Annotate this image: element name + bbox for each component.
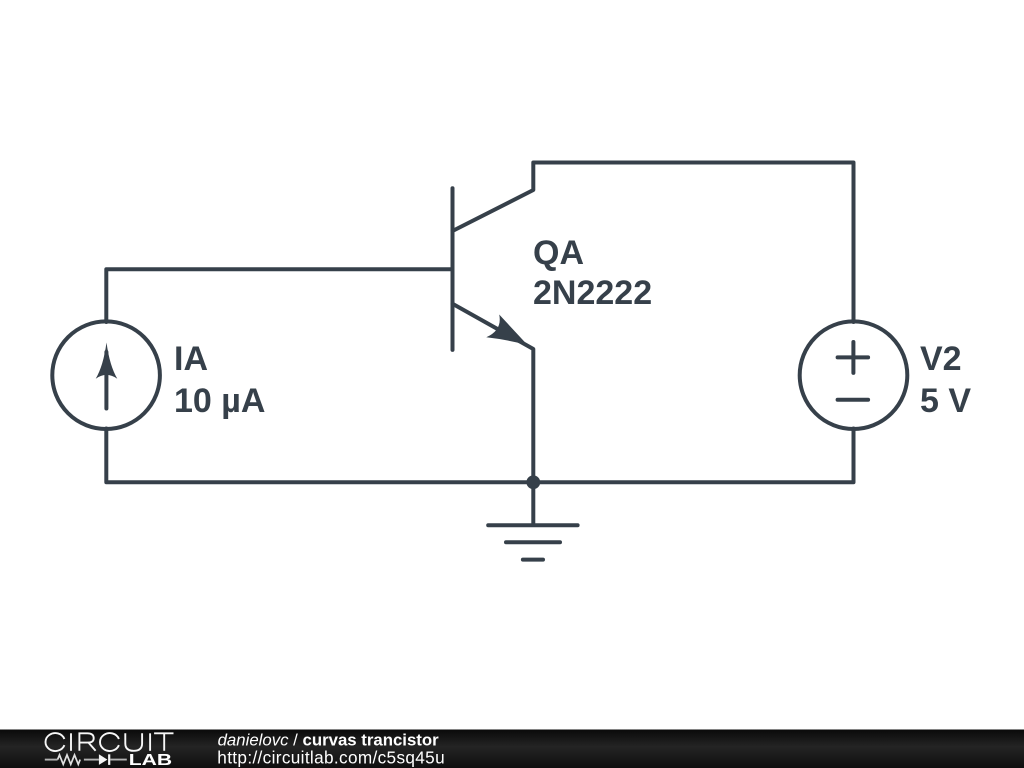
- svg-text:2N2222: 2N2222: [533, 274, 652, 312]
- svg-text:QA: QA: [533, 234, 584, 272]
- svg-text:LAB: LAB: [129, 750, 172, 768]
- svg-text:5 V: 5 V: [920, 382, 971, 420]
- svg-text:http://circuitlab.com/c5sq45u: http://circuitlab.com/c5sq45u: [217, 748, 445, 768]
- svg-text:IA: IA: [174, 340, 208, 378]
- svg-text:danielovc / curvas trancistor: danielovc / curvas trancistor: [218, 730, 440, 749]
- svg-text:10 µA: 10 µA: [174, 382, 265, 420]
- svg-text:V2: V2: [920, 340, 962, 378]
